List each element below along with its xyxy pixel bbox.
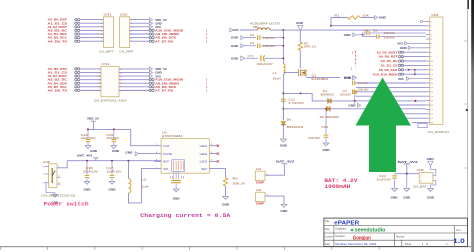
svg-text:✱: ✱ bbox=[350, 227, 354, 232]
net label box near CN3 pin24 bbox=[418, 123, 427, 127]
svg-text:22uF/10V: 22uF/10V bbox=[106, 170, 121, 174]
wire CN3 pin2 net to R1 bbox=[331, 25, 426, 27]
U1 left pin stubs bbox=[154, 146, 161, 169]
junction VDD rail / C15 bbox=[113, 128, 115, 130]
svg-text:105/16V: 105/16V bbox=[384, 36, 396, 39]
junction boost node bbox=[282, 29, 284, 31]
wire A0_D0_RST to CN3 bbox=[403, 56, 426, 58]
ground under C14 bbox=[87, 143, 89, 146]
U1 LED pin stubs with no-connect marks bbox=[209, 145, 218, 147]
svg-text:LED2: LED2 bbox=[200, 152, 208, 156]
connector CN6 CN_BAT bbox=[419, 173, 433, 184]
DRC marker red dashed line bbox=[354, 51, 356, 67]
wire row to CN3 pin16 bbox=[356, 86, 426, 88]
svg-text:A8_D8_SCK: A8_D8_SCK bbox=[379, 68, 399, 72]
junction R1 branch bbox=[330, 25, 332, 27]
wire CN2 pin3 to 3V3 bbox=[130, 26, 151, 28]
wire CN4 to A9_D9_MISO bbox=[119, 82, 150, 84]
svg-text:B0540WS: B0540WS bbox=[287, 125, 304, 129]
connector CN1 (XIAO socket left row) bbox=[104, 17, 114, 48]
CN8 left pin stubs 6 5 4 bbox=[45, 167, 49, 183]
bus entry A8_D8_SCK bbox=[398, 69, 403, 71]
svg-text:4.7uF/50V: 4.7uF/50V bbox=[289, 101, 305, 105]
svg-text:OrigName:: OrigName: bbox=[335, 227, 347, 230]
svg-text:LED1: LED1 bbox=[200, 144, 208, 148]
capacitor C12 4.7uF/50V bbox=[281, 98, 286, 100]
svg-text:C2: C2 bbox=[250, 33, 255, 37]
svg-text:D0: D0 bbox=[320, 115, 325, 119]
wire CN8 common to ground bbox=[46, 182, 55, 194]
svg-text:GND: GND bbox=[427, 157, 434, 161]
CN8 pin 3 stub bbox=[57, 183, 61, 185]
wire CN4 to A8_D8_SCK bbox=[119, 86, 150, 88]
wire CN2 pin6 to A8_D8_SCK bbox=[130, 37, 150, 39]
svg-text:GND: GND bbox=[344, 33, 351, 37]
svg-text:GND: GND bbox=[231, 57, 238, 61]
sheet border right line bbox=[467, 0, 469, 247]
wire A8_D8_SCK to CN3 bbox=[403, 69, 426, 71]
svg-text:SET: SET bbox=[201, 167, 207, 171]
svg-text:390K_1%: 390K_1% bbox=[233, 181, 246, 185]
svg-text:22uF/10V: 22uF/10V bbox=[376, 177, 391, 181]
capacitor C18 22uF/10V bbox=[86, 161, 88, 175]
bus entry A7_D7_RX bbox=[149, 40, 154, 42]
wire boost output upper branch bbox=[283, 93, 426, 101]
svg-text:GND: GND bbox=[125, 150, 133, 154]
bus entry A9_D9_MISO (CN4) bbox=[149, 82, 154, 84]
capacitor C9 bbox=[352, 90, 354, 94]
svg-text:PGND: PGND bbox=[163, 152, 173, 156]
junction BAT rail / L2 bbox=[128, 160, 130, 162]
svg-text:Sheet: Sheet bbox=[405, 243, 412, 246]
wire A1_D1_CS to CN1 pin 2 bbox=[75, 22, 80, 24]
wire CN3 pin24 bbox=[412, 122, 426, 124]
wire GND to R2 bbox=[299, 31, 301, 43]
ground under C18 bbox=[86, 179, 88, 182]
svg-text:BAT_4V2: BAT_4V2 bbox=[276, 160, 294, 164]
svg-text:Size: Size bbox=[325, 228, 330, 231]
connector CN8 power switch MSK12C02 bbox=[49, 164, 57, 188]
wire GND to C4 C5 bbox=[356, 34, 365, 36]
svg-text:GND: GND bbox=[280, 144, 287, 148]
wire A4_D4_SDA to CN1 pin 5 bbox=[75, 33, 80, 35]
svg-text:Custom: Custom bbox=[324, 236, 333, 239]
wire CN4 to A7_D7_RX bbox=[119, 89, 150, 91]
junction C7 on output bbox=[354, 100, 356, 102]
bus entry A1_D1_CS bbox=[398, 64, 403, 66]
resistor R1 10K bbox=[331, 17, 348, 19]
CN8 pin 2 stub bbox=[57, 176, 61, 178]
svg-text:BAT: BAT bbox=[163, 160, 169, 164]
wire row to CN3 pin20 bbox=[398, 104, 426, 106]
capacitor C8 bbox=[352, 81, 354, 85]
bus entry A7_D7_RX (CN4) bbox=[149, 89, 154, 91]
svg-text:A0_D0_RST: A0_D0_RST bbox=[379, 55, 398, 59]
svg-text:GND: GND bbox=[109, 188, 116, 192]
svg-text:3V3: 3V3 bbox=[398, 77, 404, 81]
junction VDD rail / C14 bbox=[87, 128, 89, 130]
wire row to CN3 pin18 bbox=[356, 95, 426, 97]
bus entry A3_D3_DC bbox=[398, 60, 403, 62]
capacitor C15 104/16V bbox=[113, 129, 115, 138]
green arrow overlay bbox=[356, 78, 412, 173]
svg-text:GND: GND bbox=[280, 209, 287, 213]
svg-text:GND: GND bbox=[391, 195, 398, 199]
capacitor C4 105/16V bbox=[366, 31, 368, 35]
svg-text:220uF/10V: 220uF/10V bbox=[257, 62, 273, 66]
capacitor C5 105/16V bbox=[376, 35, 378, 39]
wire U1 SW to inductor L2 bbox=[129, 169, 155, 203]
wire A2_D2_BUSY to CN3 bbox=[403, 51, 426, 53]
wire C9 row to CN3 pin17 bbox=[355, 91, 426, 93]
wire row to CN3 pin23 with junction bbox=[398, 117, 426, 119]
svg-text:Monday, December 09, 2024: Monday, December 09, 2024 bbox=[335, 242, 376, 246]
svg-text:GND: GND bbox=[427, 195, 434, 199]
svg-text:LED3: LED3 bbox=[200, 160, 208, 164]
bus entry A0_D0_RST bbox=[398, 55, 403, 57]
svg-text:CN_06PT: CN_06PT bbox=[99, 49, 114, 53]
svg-text:A7_D7_RX: A7_D7_RX bbox=[155, 39, 174, 43]
wire CN2 pin1 to VDD_5V flag bbox=[130, 19, 151, 21]
bus entry A2_D2_BUSY bbox=[398, 51, 403, 53]
ground under R6 bbox=[225, 186, 227, 196]
svg-text:22uF/10V: 22uF/10V bbox=[81, 136, 96, 140]
svg-text:Charging current = 0.5A: Charging current = 0.5A bbox=[140, 213, 231, 219]
U1 bottom pin red markers bbox=[174, 161, 184, 170]
svg-text:DNP: DNP bbox=[256, 202, 264, 206]
svg-text:CN_MSK12C02-SZ: CN_MSK12C02-SZ bbox=[41, 193, 75, 197]
svg-text:CN4: CN4 bbox=[102, 62, 110, 66]
U1 status select box bbox=[172, 160, 185, 172]
capacitor C24 22uF/10V bbox=[394, 174, 396, 175]
svg-text:A6_D6_TX: A6_D6_TX bbox=[48, 88, 69, 92]
svg-text:A3_D3_DC: A3_D3_DC bbox=[381, 59, 399, 63]
svg-text:Date:: Date: bbox=[325, 243, 331, 246]
svg-text:10uH: 10uH bbox=[273, 77, 281, 81]
svg-text:C3: C3 bbox=[250, 41, 255, 45]
wire A0_D0_RST to CN4 pin 1 bbox=[75, 68, 80, 70]
power flag VDD_5V (CN2 pin1) bbox=[150, 18, 153, 22]
svg-text:Designer:: Designer: bbox=[335, 235, 346, 238]
svg-text:A10_D10_MOSI: A10_D10_MOSI bbox=[373, 72, 398, 76]
svg-text:seeedstudio: seeedstudio bbox=[355, 227, 386, 233]
wire A3_D3_DC to CN4 pin 4 bbox=[75, 78, 80, 80]
transistor Q1 SI1304BDL N-MOSFET bbox=[299, 69, 306, 77]
svg-text:3V3: 3V3 bbox=[233, 28, 239, 32]
svg-text:22uF/10V: 22uF/10V bbox=[83, 170, 98, 174]
wire CN4 pin13 to GND bbox=[119, 71, 151, 73]
svg-text:GND: GND bbox=[323, 148, 330, 152]
CN8 pin 1 wire up to BAT rail bbox=[57, 161, 67, 168]
sheet border bottom line bbox=[0, 246, 471, 248]
svg-text:R1: R1 bbox=[335, 13, 341, 17]
svg-text:105/16V: 105/16V bbox=[340, 92, 352, 96]
svg-text:10K: 10K bbox=[363, 13, 370, 17]
junction output branch bbox=[300, 93, 302, 95]
svg-text:OUT: OUT bbox=[163, 144, 170, 148]
svg-text:ETA9740E8A: ETA9740E8A bbox=[162, 134, 183, 138]
svg-text:D6: D6 bbox=[287, 117, 292, 121]
svg-text:1.0: 1.0 bbox=[453, 238, 465, 245]
inductor L2 1uH bbox=[129, 179, 131, 194]
svg-text:GND: GND bbox=[231, 36, 238, 40]
svg-text:1000mAH: 1000mAH bbox=[324, 184, 350, 190]
wire CN2 pin2 to GND bbox=[130, 22, 151, 24]
wire D0 line to CN3 pin 21 bbox=[283, 108, 426, 110]
svg-text:CN_BAT: CN_BAT bbox=[413, 184, 427, 188]
svg-text:L2: L2 bbox=[141, 177, 147, 181]
wire boost node to CN3 pin 3 bbox=[283, 29, 426, 31]
svg-text:105/16V: 105/16V bbox=[384, 32, 396, 35]
diode D1 B0540WS bbox=[328, 98, 331, 103]
svg-text:Monitor:: Monitor: bbox=[396, 235, 405, 238]
power flag VDD_5V (CN4) bbox=[150, 67, 153, 71]
svg-text:GND: GND bbox=[90, 149, 97, 153]
svg-text:1uH: 1uH bbox=[141, 185, 148, 189]
bus entry A8_D8_SCK bbox=[149, 36, 154, 38]
ground under H2 bbox=[281, 204, 287, 207]
svg-text:3V3: 3V3 bbox=[397, 42, 403, 46]
IC U1 ETA9740E8A battery charger bbox=[161, 139, 209, 174]
wire row to CN3 pin22 bbox=[404, 113, 426, 115]
svg-text:GND: GND bbox=[84, 188, 91, 192]
svg-text:GND: GND bbox=[344, 76, 351, 80]
svg-text:105/16V: 105/16V bbox=[263, 44, 275, 48]
svg-text:DNP: DNP bbox=[256, 181, 264, 185]
connector CN2 (XIAO socket right row) bbox=[120, 17, 130, 48]
junction D1 line right bbox=[414, 100, 416, 102]
wire A4_D4_SDA to CN4 pin 5 bbox=[75, 82, 80, 84]
ground below CN6 bbox=[431, 180, 436, 188]
svg-text:BAT_4V2: BAT_4V2 bbox=[398, 160, 418, 164]
bus entry A8_D8_SCK (CN4) bbox=[149, 86, 154, 88]
wire H1 to BAT_4V2 flag bbox=[265, 164, 284, 175]
window top-right corner mark bbox=[467, 0, 469, 9]
wire A2_D2_BUSY to CN1 pin 3 bbox=[75, 26, 80, 28]
wire Q1 source to ground flag bbox=[305, 76, 307, 78]
bus entry A9_D9_MISO bbox=[149, 33, 154, 35]
svg-text:of: of bbox=[426, 243, 428, 246]
svg-text:CN_06PT: CN_06PT bbox=[119, 49, 134, 53]
wire A3_D3_DC to CN1 pin 4 bbox=[75, 29, 80, 31]
ground flag right of R1 bbox=[375, 16, 378, 20]
switch lever symbol inside CN8 bbox=[51, 168, 53, 183]
ground GND (CN4) bbox=[150, 71, 153, 75]
svg-text:A6_D6_TX: A6_D6_TX bbox=[48, 39, 69, 43]
power port 3V3 into ferrite bead bbox=[230, 28, 233, 32]
wire C8 row to CN3 pin15 bbox=[355, 82, 426, 84]
junction C4 C5 bbox=[362, 34, 364, 36]
svg-text:GND: GND bbox=[403, 195, 410, 199]
wire A5_D5_SCL to CN1 pin 6 bbox=[75, 36, 80, 38]
wire VDD rail down to U1 OUT bbox=[131, 129, 154, 145]
wire A1_D1_CS to CN3 bbox=[403, 64, 426, 66]
title block outer frame bbox=[324, 218, 468, 246]
connector H1 DNP bbox=[255, 171, 265, 181]
U1 pin numbers left bbox=[156, 144, 158, 169]
resistor R2 0R47_1% bbox=[298, 42, 302, 50]
CN3 pin stubs bbox=[426, 21, 430, 122]
capacitor C17 22uF/10V bbox=[111, 161, 113, 175]
wire C5 to CN3 pin5 bbox=[379, 36, 426, 38]
connector H2 DNP bbox=[255, 192, 265, 202]
wire A6_D6_TX to CN4 pin 7 bbox=[75, 89, 80, 91]
svg-text:Title: Title bbox=[325, 220, 330, 223]
svg-text:GND: GND bbox=[231, 44, 238, 48]
wire C7 junction to GND flag bbox=[354, 101, 356, 105]
connector CN3 CN_DISPLAY bbox=[430, 17, 443, 125]
ground branch battery net bbox=[406, 174, 408, 189]
wire CN4 pin14 to VDD_5V flag bbox=[119, 68, 151, 70]
junction display rows bbox=[408, 69, 410, 71]
svg-text:CN6: CN6 bbox=[417, 168, 424, 172]
wire H2 to ground bbox=[265, 196, 284, 204]
bus entry A10_D10_MOSI (CN4) bbox=[149, 78, 154, 80]
svg-text:BAT_4V2: BAT_4V2 bbox=[77, 154, 92, 158]
wire A1_D1_CS to CN4 pin 2 bbox=[75, 71, 80, 73]
wire junction into caps bbox=[361, 33, 363, 37]
svg-text:A2_D2_BUSY: A2_D2_BUSY bbox=[377, 50, 399, 54]
svg-text:Power switch: Power switch bbox=[44, 202, 89, 208]
svg-text:104/16V: 104/16V bbox=[106, 136, 119, 140]
wire R2 to Q1 gate bbox=[299, 50, 301, 68]
U1 bottom pad capacitors bbox=[174, 171, 179, 179]
svg-text:CN8: CN8 bbox=[43, 160, 50, 164]
svg-text:GND: GND bbox=[222, 202, 229, 206]
svg-text:B0540WS: B0540WS bbox=[321, 92, 334, 96]
wire A10_D10_MOSI to CN3 bbox=[403, 73, 426, 75]
wire R1 branch vertical bbox=[330, 18, 332, 26]
svg-text:GND: GND bbox=[112, 149, 119, 153]
power flag 3V3 (CN2 pin3) bbox=[150, 25, 153, 29]
svg-text:Gongjun: Gongjun bbox=[353, 236, 371, 242]
diode D0 B0540WS bbox=[327, 106, 330, 111]
ground under U1 pad bbox=[175, 184, 177, 189]
junction D0 line C19 bbox=[325, 108, 327, 110]
bus entry A10_D10_MOSI bbox=[398, 73, 403, 75]
wire A0_D0_RST to CN1 pin 1 bbox=[75, 18, 80, 20]
junction boost rail to C12 bbox=[282, 92, 284, 94]
svg-text:GND: GND bbox=[296, 21, 303, 25]
capacitor C14 22uF/10V bbox=[87, 129, 89, 138]
svg-text:H2: H2 bbox=[256, 188, 262, 192]
svg-text:GND: GND bbox=[400, 46, 407, 50]
svg-text:104/16V: 104/16V bbox=[263, 36, 275, 40]
wire U1 SET to R6 bbox=[209, 169, 225, 178]
power flag 3V3 (CN4) bbox=[150, 74, 153, 78]
wire CN2 pin4 to A10_D10_MOSI bbox=[130, 29, 150, 31]
svg-text:104/16V: 104/16V bbox=[358, 89, 369, 92]
junction BAT rail / C17 bbox=[111, 160, 113, 162]
wire boost vertical rail bbox=[282, 30, 284, 120]
svg-text:A7_D7_RX: A7_D7_RX bbox=[155, 88, 174, 92]
svg-text:GND: GND bbox=[173, 197, 180, 201]
sheet border right zone ticks bbox=[464, 41, 468, 168]
svg-text:H1: H1 bbox=[256, 167, 262, 171]
wire CN2 pin7 to A7_D7_RX bbox=[130, 40, 150, 42]
ground GND (CN2 pin2) bbox=[150, 21, 153, 25]
svg-text:Rev: Rev bbox=[457, 229, 462, 232]
ground under C15 bbox=[113, 143, 115, 146]
inductor L1 10uH bbox=[282, 64, 286, 74]
svg-text:CN1: CN1 bbox=[104, 13, 112, 17]
wire A5_D5_SCL to CN4 pin 6 bbox=[75, 86, 80, 88]
CN3 pin1 no-connect mark bbox=[420, 20, 422, 22]
bus entry A10_D10_MOSI bbox=[149, 29, 154, 31]
ground under C19 bbox=[325, 138, 327, 142]
svg-text:GND: GND bbox=[348, 103, 355, 107]
wire FB1 to boost node bbox=[270, 29, 283, 31]
ground under C24 bbox=[394, 179, 396, 188]
ground under C17 bbox=[111, 179, 113, 182]
svg-text:A1_D1_CS: A1_D1_CS bbox=[381, 64, 398, 68]
svg-text:CN_DISPLAY: CN_DISPLAY bbox=[428, 130, 450, 134]
connector CN4 (CN_ESP32S3_XIAO) bbox=[101, 66, 119, 97]
svg-text:C19: C19 bbox=[321, 125, 329, 129]
wire A3_D3_DC to CN3 bbox=[403, 60, 426, 62]
wire boost rail to Q1 drain bbox=[283, 72, 298, 74]
svg-text:VDD_5V: VDD_5V bbox=[87, 117, 100, 121]
svg-text:0R47_1%: 0R47_1% bbox=[304, 45, 317, 49]
svg-text:CN3: CN3 bbox=[431, 13, 438, 17]
wire A6_D6_TX to CN1 pin 7 bbox=[75, 40, 80, 42]
capacitor C19 104/16V to ground bbox=[325, 109, 327, 134]
sheet border bottom zone ticks bbox=[1, 247, 380, 250]
wire C4 to CN3 pin4 bbox=[369, 32, 426, 34]
ground under D6 bbox=[282, 125, 284, 139]
junction boost rail to D0 line bbox=[282, 108, 284, 110]
svg-text:ePAPER: ePAPER bbox=[334, 220, 359, 226]
ground under CN8 bbox=[52, 194, 58, 197]
junction battery net bbox=[406, 173, 408, 175]
svg-text:GND: GND bbox=[379, 16, 386, 20]
wire VDD_5V rail bbox=[87, 128, 131, 130]
junction BAT rail / C18 bbox=[86, 160, 88, 162]
wire CN2 pin5 to A9_D9_MISO bbox=[130, 33, 150, 35]
svg-text:B0540WS: B0540WS bbox=[326, 115, 339, 119]
svg-text:104/16V: 104/16V bbox=[308, 136, 320, 140]
wire CN4 pin12 to 3V3 bbox=[119, 75, 151, 77]
svg-text:CT1: CT1 bbox=[248, 54, 255, 58]
svg-text:CN_ESP32S3_XIAO: CN_ESP32S3_XIAO bbox=[94, 99, 128, 103]
svg-text:CN2: CN2 bbox=[120, 13, 128, 17]
diode D6 B0540WS to ground bbox=[282, 109, 284, 120]
svg-text:104/16V: 104/16V bbox=[358, 82, 369, 85]
CN3 pin numbers bbox=[431, 21, 434, 124]
title block row lines bbox=[324, 225, 468, 246]
wire CN4 to A10_D10_MOSI bbox=[119, 79, 150, 81]
svg-text:L1: L1 bbox=[273, 71, 278, 75]
wire battery net bbox=[395, 173, 420, 175]
svg-text:R6: R6 bbox=[233, 177, 239, 181]
resistor R6 390K_1% bbox=[223, 178, 227, 186]
svg-text:SW: SW bbox=[163, 167, 168, 171]
wire A2_D2_BUSY to CN4 pin 3 bbox=[75, 75, 80, 77]
wire 3V3 to FB1 bbox=[240, 29, 258, 31]
wire battery rail BAT_4V2 bbox=[67, 160, 161, 162]
